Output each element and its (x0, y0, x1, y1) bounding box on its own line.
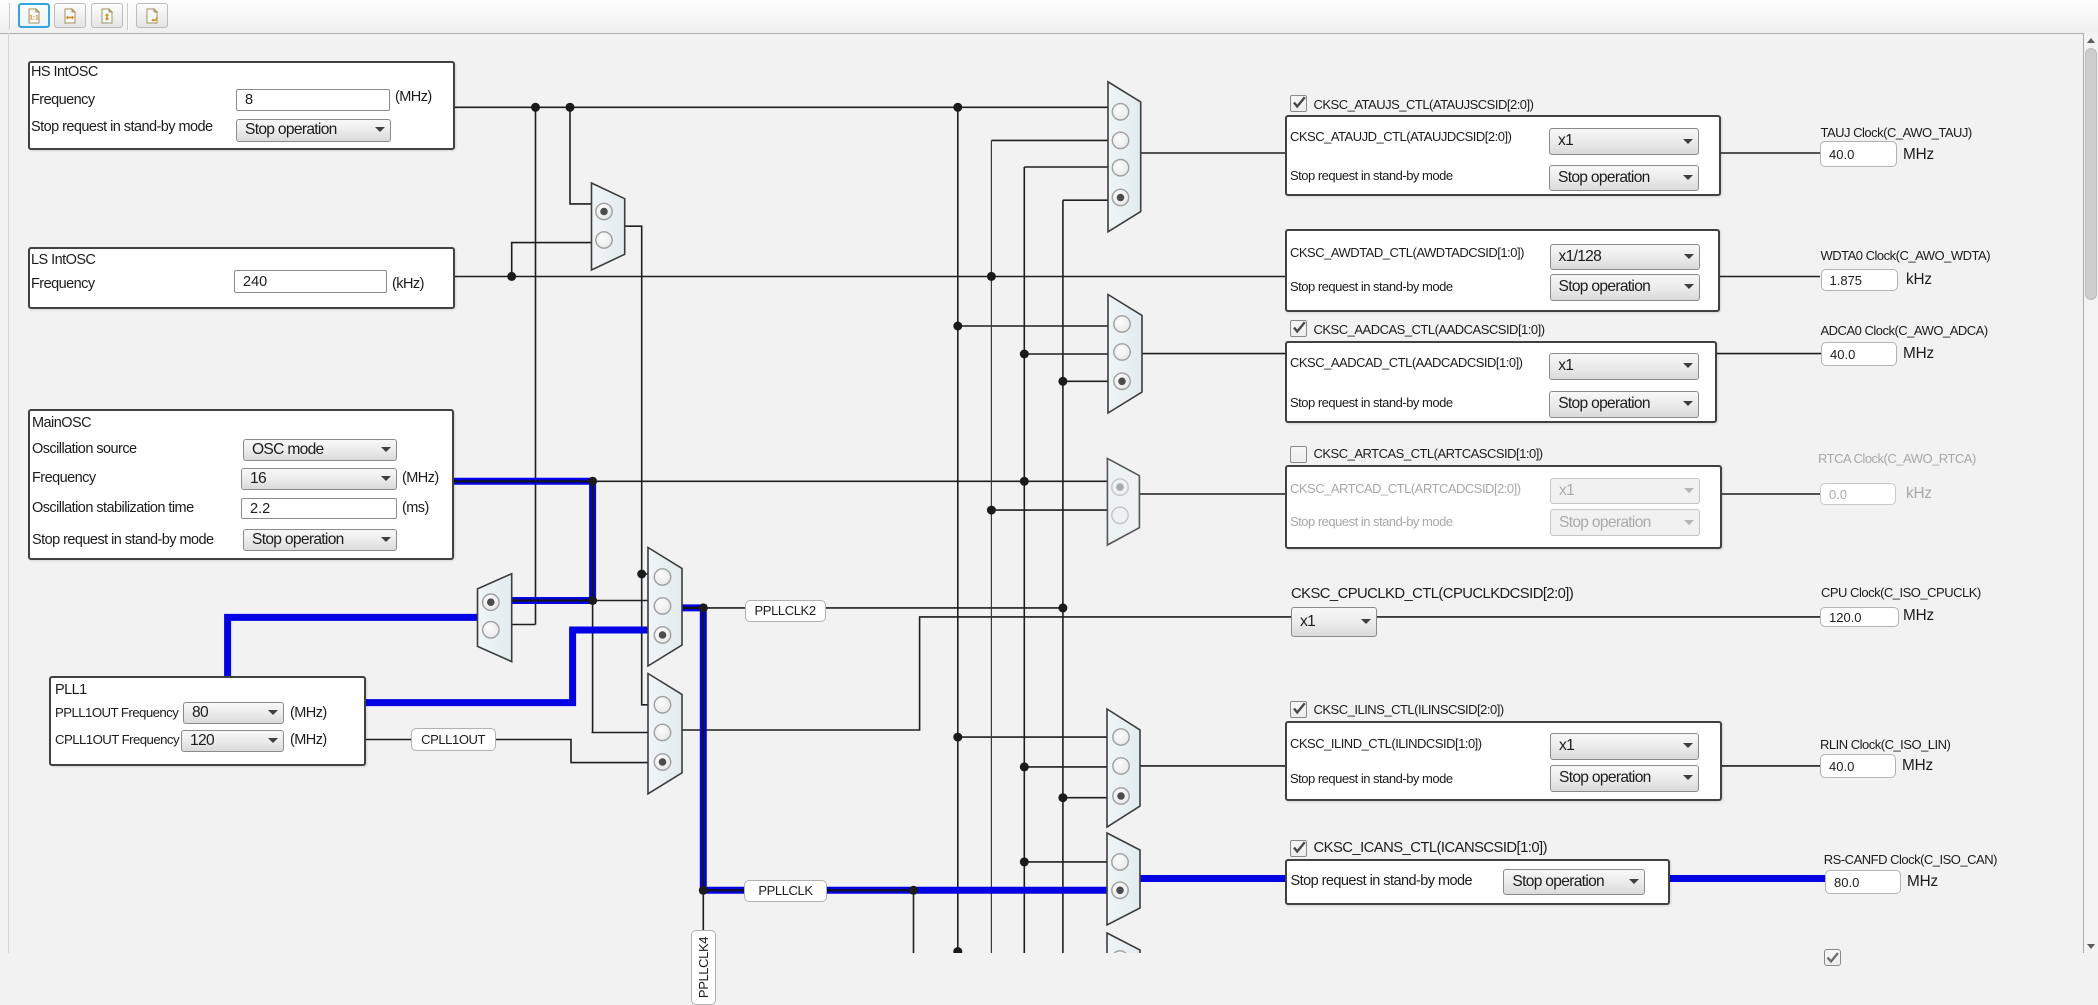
svg-text:1:1: 1:1 (29, 14, 39, 21)
